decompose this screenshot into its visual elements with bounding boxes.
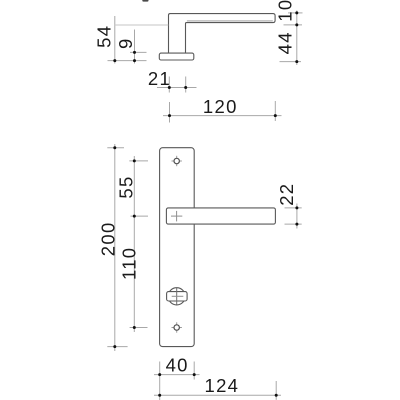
tick 21 left: [168, 86, 171, 89]
extension line bottom hole: [130, 327, 148, 329]
dimension line 10/44 (vertical right): [296, 11, 298, 66]
tick 55 top: [133, 159, 136, 162]
svg-text:124: 124: [205, 375, 240, 396]
extension line handle right: [274, 101, 276, 121]
dimension line 9 (vertical): [134, 30, 136, 64]
svg-text:54: 54: [94, 25, 115, 48]
tick 120 left: [168, 114, 171, 117]
extension line plate top: [107, 147, 124, 149]
top screw hole tick marks: [172, 156, 182, 166]
svg-text:21: 21: [148, 68, 171, 89]
tick 40 right: [193, 373, 196, 376]
tick 124 left: [158, 394, 161, 397]
svg-text:55: 55: [115, 175, 136, 198]
svg-text:9: 9: [115, 37, 136, 49]
tick 10/44 middle: [295, 23, 298, 26]
extension line bar bottom: [285, 223, 302, 225]
tick 9 bottom: [133, 59, 136, 62]
bottom screw hole tick marks: [172, 322, 182, 332]
tick 10 top: [295, 11, 298, 14]
dimension line 22 (vertical right): [296, 204, 298, 229]
extension line handle left: [169, 102, 171, 123]
svg-text:44: 44: [274, 31, 295, 54]
dimension line 54 (vertical): [114, 16, 116, 64]
extension line bar end: [275, 381, 277, 400]
dimension line 200 (vertical): [114, 144, 116, 351]
extension line handle axis: [131, 215, 149, 217]
extension line top hole: [129, 160, 148, 162]
lever grip inner bevel line: [187, 20, 273, 22]
extension line rose top: [130, 51, 147, 53]
extension line lever bottom: [284, 24, 303, 26]
extension line lever top: [288, 12, 303, 14]
tick 120 right: [274, 114, 277, 117]
tick 124 right: [275, 394, 278, 397]
extension line plate right: [193, 362, 195, 380]
tick 200 top: [113, 146, 116, 149]
extension line plate bottom: [107, 346, 127, 348]
dimension line 21 (horizontal): [157, 87, 197, 89]
WC knob horizontal axis line: [172, 295, 184, 297]
tick 54 bottom: [113, 59, 116, 62]
extension line plate left: [159, 362, 161, 400]
rose / base plate side view: [159, 53, 194, 60]
svg-text:22: 22: [276, 183, 297, 206]
spindle cross mark: [171, 211, 182, 222]
extension line neck right: [185, 77, 187, 93]
dimension line 40 (horizontal): [154, 374, 200, 376]
dimension line 124 (horizontal): [154, 394, 281, 396]
cropped artifact at top edge: [142, 0, 148, 2]
extension line neck left: [168, 77, 170, 93]
svg-text:10: 10: [274, 0, 295, 22]
backplate front view: [160, 148, 195, 347]
bottom screw hole: [174, 325, 179, 330]
extension line rose bottom right: [280, 61, 302, 63]
dimension line 55/110 (vertical): [133, 156, 135, 332]
tick 9 top: [133, 51, 136, 54]
tick 21 right: [184, 86, 187, 89]
tick 44 bottom: [295, 60, 298, 63]
tick 40 left: [158, 373, 161, 376]
extension line lever underside (faint): [115, 24, 169, 26]
tick 55/110 middle: [133, 215, 136, 218]
tick 22 bottom: [295, 223, 298, 226]
svg-text:110: 110: [119, 247, 140, 280]
svg-text:200: 200: [97, 221, 118, 256]
tick 22 top: [295, 206, 298, 209]
dimension line 120 (horizontal): [163, 115, 282, 117]
lever bar front view: [166, 208, 275, 224]
top screw hole: [174, 158, 179, 163]
WC turn knob circle: [168, 288, 185, 305]
WC turn knob grip: [167, 292, 188, 301]
tick 110 bottom: [133, 326, 136, 329]
svg-text:120: 120: [203, 96, 238, 117]
extension line bar top: [285, 207, 302, 209]
tick 200 bottom: [113, 345, 116, 348]
WC knob vertical axis line: [176, 288, 178, 305]
svg-text:40: 40: [166, 354, 189, 375]
lever handle side view outline (neck + grip): [169, 14, 276, 54]
extension line rose bottom: [108, 60, 147, 62]
